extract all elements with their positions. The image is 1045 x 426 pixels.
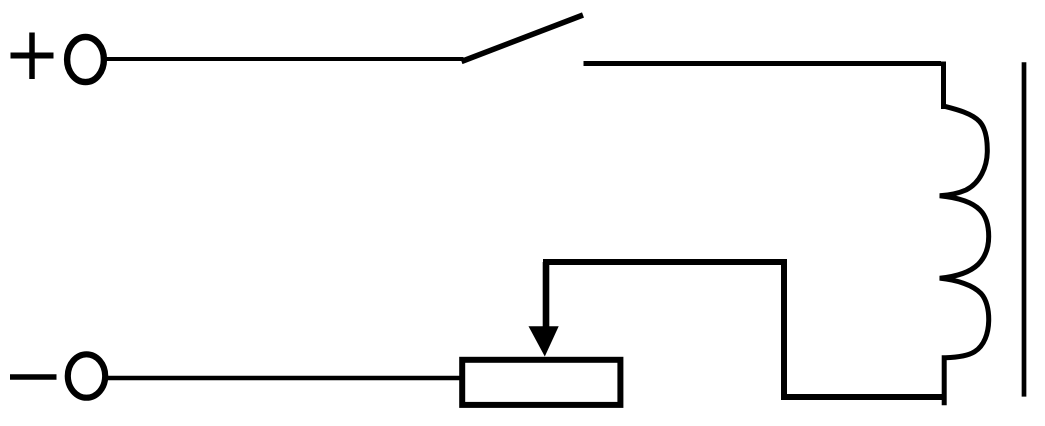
wire from wiper to coil bottom bbox=[543, 262, 946, 397]
battery positive label + bbox=[11, 33, 54, 80]
iron core bar bbox=[1022, 62, 1027, 396]
wire from + terminal to switch bbox=[104, 57, 464, 61]
rheostat wiper arrow bbox=[529, 262, 559, 357]
battery negative label - bbox=[10, 374, 57, 380]
wire from - terminal to rheostat bbox=[103, 376, 461, 381]
wire from switch contact to coil top bbox=[584, 62, 944, 110]
terminal circle (positive) bbox=[67, 37, 104, 82]
switch S1 blade (open) bbox=[462, 15, 584, 62]
inductor coil L1 (3 loops) bbox=[940, 106, 989, 405]
rheostat R1 body bbox=[462, 360, 620, 405]
terminal circle (negative) bbox=[68, 354, 105, 397]
